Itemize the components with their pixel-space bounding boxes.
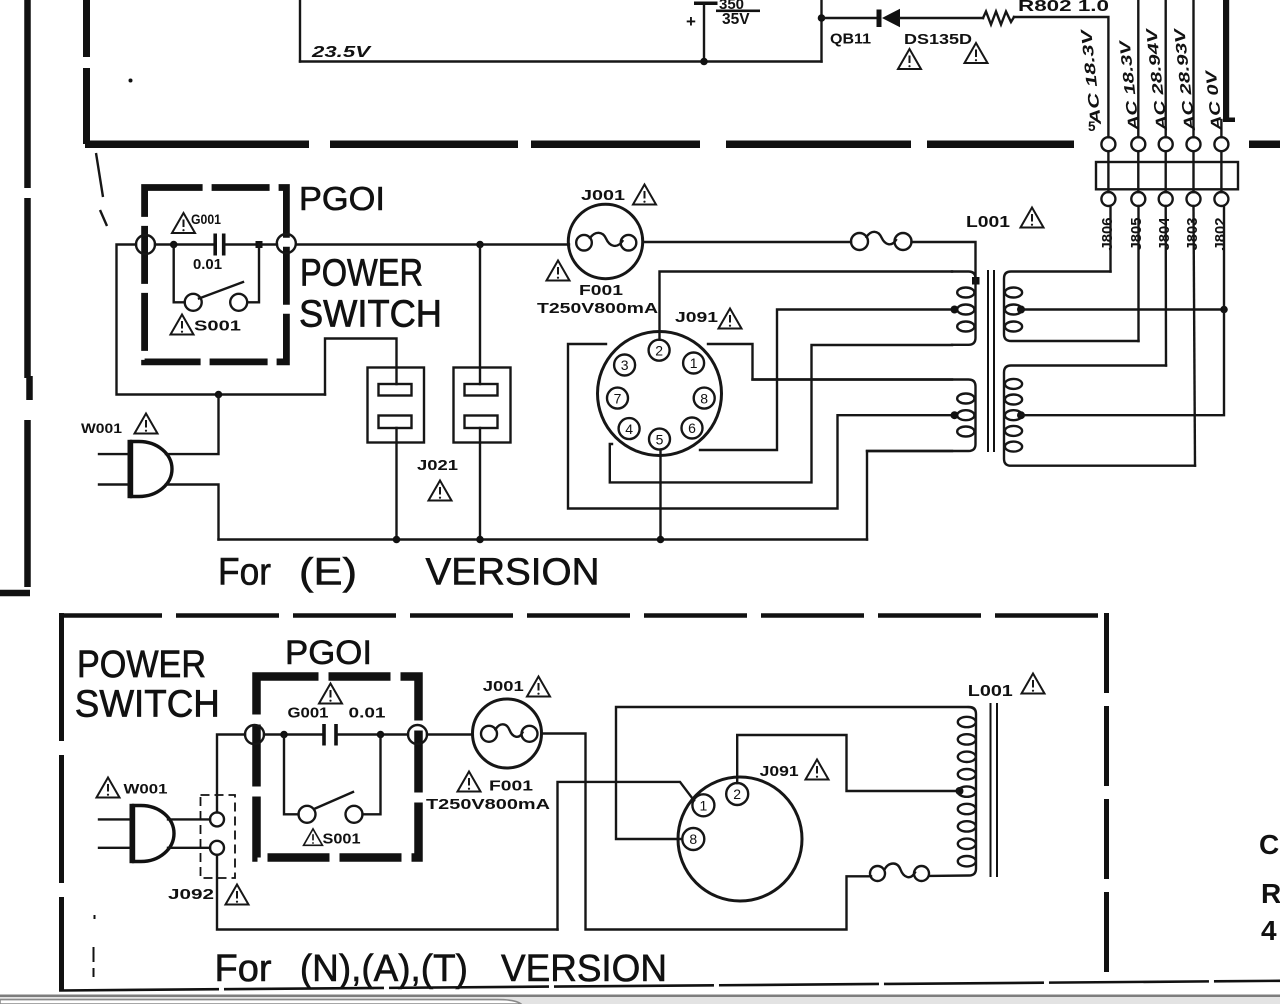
- wire J092 upper to main (NAT): [217, 735, 245, 813]
- warning triangle near QB11: [898, 49, 921, 69]
- svg-text:5: 5: [1088, 119, 1096, 134]
- wire AC line J802 upper: [1220, 120, 1222, 137]
- wire main line left of capacitor (E): [155, 243, 213, 245]
- svg-text:J021: J021: [417, 457, 458, 474]
- junction switch right (NAT): [377, 731, 385, 739]
- wire J091 upper-right edge to lower primary top (E): [708, 344, 952, 380]
- fuse F001 (E) right contact: [621, 235, 637, 251]
- svg-text:(N),(A),(T): (N),(A),(T): [300, 948, 468, 990]
- plug W001 (NAT): [134, 806, 175, 862]
- fuse holder J001 (NAT) big circle: [473, 699, 542, 768]
- svg-text:+: +: [686, 12, 696, 31]
- junction winding center tap (NAT): [956, 787, 964, 795]
- svg-text:DS135D: DS135D: [904, 32, 972, 48]
- warning triangle F001 (NAT): [458, 772, 481, 792]
- junction at J802 line (E): [1220, 306, 1228, 314]
- wire pin8 to winding top (NAT): [616, 707, 967, 839]
- pin 7 (E J091): [607, 388, 628, 409]
- svg-text:VERSION: VERSION: [426, 552, 600, 594]
- svg-text:F001: F001: [489, 779, 533, 795]
- connector top circle J804: [1159, 137, 1173, 151]
- svg-text:J091: J091: [675, 309, 718, 326]
- svg-text:SWITCH: SWITCH: [75, 684, 220, 726]
- line fuse F002 left contact (E): [851, 233, 868, 250]
- connector J091 (NAT) big circle: [678, 777, 802, 901]
- wire J091 lower-left edge to top primary bottom (E): [610, 345, 952, 482]
- jack J021 left bottom slot: [379, 416, 412, 429]
- warning triangle J001 (NAT): [527, 677, 550, 697]
- svg-text:W001: W001: [124, 781, 168, 797]
- fuse holder J001 (E) big circle: [568, 204, 642, 278]
- plug W001 prongs (NAT): [99, 819, 130, 847]
- pin 5 (E J091): [649, 429, 670, 450]
- svg-text:QB11: QB11: [830, 32, 871, 48]
- transformer L001 (NAT) core: [991, 703, 998, 877]
- svg-text:L001: L001: [966, 214, 1010, 231]
- svg-text:J092: J092: [168, 886, 214, 903]
- border chassis horizontal dashed line: [85, 140, 1280, 148]
- wire lower secondary top to J804 (E): [1164, 206, 1167, 366]
- junction right switch branch (E): [256, 241, 263, 248]
- svg-text:3: 3: [621, 357, 629, 373]
- warning triangle S001 (E): [171, 315, 194, 335]
- transformer secondary winding top (E): [1004, 272, 1139, 342]
- terminal circle right (NAT PG01): [408, 725, 427, 744]
- wire fuse right down to rail (NAT): [542, 734, 872, 930]
- warning triangle J021: [429, 481, 452, 501]
- svg-text:PGOI: PGOI: [285, 634, 372, 672]
- wire bottom rail (E): [219, 538, 868, 540]
- pin 1 (E J091): [683, 353, 704, 374]
- svg-text:W001: W001: [81, 420, 122, 436]
- warning triangle W001 (E): [135, 414, 158, 434]
- wire right jack bottom to rail (E): [479, 428, 481, 540]
- wire J091 lower-right edge to top primary center tap (E): [700, 310, 950, 451]
- wire capacitor to right terminal (E): [224, 243, 277, 245]
- svg-text:T250V800mA: T250V800mA: [537, 300, 658, 317]
- wire block bottom rail: [300, 60, 822, 62]
- fuse F001 (E) element: [590, 233, 623, 246]
- wire right jack drop (E): [479, 245, 481, 385]
- svg-text:2: 2: [655, 342, 663, 358]
- warning triangle W001 (NAT): [97, 778, 120, 798]
- svg-text:23.5V: 23.5V: [311, 44, 372, 61]
- wire secondary to J805 (E): [1137, 206, 1139, 341]
- svg-text:7: 7: [614, 390, 622, 406]
- wire diode to resistor: [900, 17, 983, 19]
- svg-text:F001: F001: [579, 283, 623, 299]
- switch S001 contact left (E): [185, 294, 202, 311]
- terminal circle left (E PG01): [136, 235, 155, 254]
- jack J021 right top slot: [465, 384, 498, 396]
- wire capacitor lead: [703, 4, 705, 62]
- warning triangle L001 (NAT): [1022, 674, 1045, 694]
- junction top primary center tap (E): [951, 306, 959, 314]
- svg-text:J804: J804: [1156, 217, 1173, 251]
- svg-text:1: 1: [690, 355, 698, 371]
- wire J091 upper-left edge to lower primary center tap (E): [568, 344, 950, 509]
- wire top secondary center tap to J802 (E): [1021, 308, 1224, 310]
- ui grey bar: [0, 997, 1280, 1004]
- wire switch right branch (NAT): [363, 735, 381, 815]
- fuse F001 (E) left contact: [576, 235, 592, 251]
- connector bottom circle J802: [1214, 192, 1228, 206]
- line fuse F002 element (E): [867, 232, 897, 245]
- svg-text:J001: J001: [483, 678, 524, 695]
- warning triangle near DS135D: [965, 43, 988, 63]
- fuse F001 (NAT) right contact: [522, 726, 538, 742]
- ui grey separator line: [0, 995, 1280, 998]
- svg-text:J806: J806: [1099, 218, 1116, 251]
- connector J092 dashed box: [201, 795, 236, 878]
- switch S001 lever (NAT): [314, 792, 353, 809]
- pin 4 (E J091): [619, 418, 640, 439]
- svg-text:2: 2: [733, 786, 741, 802]
- junction W001 top (E): [215, 391, 223, 399]
- capacitor G001 (NAT): [324, 724, 336, 746]
- transformer L001 (NAT) winding: [931, 707, 977, 876]
- border chassis left outer dashed vertical: [28, 0, 30, 577]
- connector bottom circle J803: [1187, 192, 1201, 206]
- connector J091 (E) big circle: [598, 332, 722, 456]
- connector bottom circle J805: [1131, 192, 1145, 206]
- warning triangle J092: [226, 885, 249, 905]
- jack J021 right body: [454, 368, 511, 443]
- svg-text:VERSION: VERSION: [501, 948, 667, 990]
- wire main line to right jack (E): [297, 243, 569, 245]
- svg-text:J001: J001: [581, 187, 625, 204]
- warning triangle J001 (E): [633, 185, 656, 205]
- fuse F001 (NAT) left contact: [481, 726, 497, 742]
- wire rail up to pin1 (NAT): [558, 782, 695, 930]
- fuse F001 (NAT) element: [496, 724, 523, 737]
- wire AC line J805 upper: [1137, 0, 1139, 137]
- transformer primary winding bottom (E): [753, 380, 976, 452]
- wire to diode: [822, 17, 878, 19]
- box PG01 dashed (NAT): [257, 677, 419, 858]
- warning triangle L001 (E): [1021, 208, 1044, 228]
- scratch artifact diagonal: [96, 153, 107, 226]
- switch S001 contact left (NAT): [299, 806, 316, 823]
- switch S001 contact right (E): [230, 294, 247, 311]
- wire plug bottom to rail (E): [166, 485, 219, 540]
- junction lower secondary center tap (E): [1017, 411, 1025, 419]
- wire rail to lower primary bottom (E): [867, 451, 952, 540]
- capacitor C811 plate: [694, 2, 718, 6]
- svg-text:SWITCH: SWITCH: [299, 294, 442, 336]
- wire plug bottom to J092 (NAT): [168, 847, 210, 849]
- svg-text:4: 4: [625, 421, 633, 437]
- connector top circle J806: [1101, 137, 1115, 151]
- svg-text:J802: J802: [1212, 218, 1229, 251]
- svg-text:J091: J091: [760, 763, 799, 780]
- border chassis inner vertical at x86: [83, 0, 90, 144]
- junction capacitor bottom: [700, 58, 708, 66]
- wire lower secondary center tap to J802 (E): [1021, 206, 1224, 415]
- svg-text:For: For: [218, 552, 271, 594]
- svg-text:G001: G001: [191, 211, 221, 227]
- connector J092 upper contact: [210, 812, 224, 826]
- svg-text:G001: G001: [288, 706, 329, 722]
- line fuse (NAT) element: [885, 864, 916, 878]
- junction left jack at rail: [393, 536, 401, 544]
- wire stubs circles to connector body: [1108, 151, 1221, 192]
- transformer secondary winding bottom (E): [1004, 366, 1195, 466]
- svg-text:0.01: 0.01: [193, 257, 222, 273]
- border NAT box top: [59, 613, 1108, 618]
- line fuse (NAT) right contact: [914, 866, 929, 881]
- border artifact small dashes: [94, 915, 95, 977]
- wire block right edge: [820, 0, 822, 62]
- wire lower secondary bottom to J803 (E): [1194, 206, 1196, 466]
- capacitor G001 (E): [215, 234, 224, 256]
- wire step up to left jack (E): [325, 339, 397, 395]
- wire main right segment (NAT): [337, 733, 408, 735]
- wire switch left branch (NAT): [284, 735, 299, 815]
- jack J021 left body: [368, 368, 425, 443]
- wire left jack bottom slot to rail: [395, 428, 397, 540]
- wire fuse to line fuse (E): [643, 241, 851, 243]
- connector body rectangle: [1096, 162, 1238, 189]
- wire left terminal to left rail (E): [117, 245, 326, 395]
- svg-text:T250V800mA: T250V800mA: [426, 796, 550, 813]
- svg-text:8: 8: [700, 390, 708, 406]
- svg-text:L001: L001: [968, 683, 1013, 700]
- border NAT box right: [1104, 613, 1109, 981]
- svg-text:PGOI: PGOI: [299, 180, 385, 217]
- border chassis E-box bottom-left corner: [0, 577, 30, 593]
- warning triangle J091 (NAT): [806, 760, 829, 780]
- warning triangle G001 (NAT): [319, 684, 342, 704]
- switch S001 contact right (NAT): [346, 806, 363, 823]
- border chassis right thick bar: [1223, 0, 1229, 122]
- wire pin2 to center tap (NAT): [737, 735, 957, 791]
- warning triangle F001 (E): [547, 261, 570, 281]
- svg-text:4: 4: [1261, 915, 1277, 946]
- svg-text:S001: S001: [194, 319, 241, 335]
- box PG01 dashed (E): [145, 188, 287, 362]
- svg-text:35V: 35V: [722, 11, 750, 28]
- pin 8 (NAT J091): [682, 828, 704, 850]
- svg-text:For: For: [215, 948, 272, 990]
- connector top circle J805: [1131, 137, 1145, 151]
- diode QB11 DS135D: [877, 10, 882, 28]
- svg-text:R802 1.0: R802 1.0: [1018, 0, 1109, 15]
- pin 2 (NAT J091): [726, 783, 748, 805]
- wire J092 lower to bottom rail (NAT): [217, 855, 558, 930]
- line fuse (NAT) left contact: [870, 866, 885, 881]
- wire main left segment (NAT): [264, 733, 322, 735]
- terminal circle left (NAT PG01): [245, 725, 264, 744]
- warning triangle S001 (NAT): [304, 829, 323, 845]
- jack J021 left top slot: [379, 384, 412, 396]
- svg-text:J805: J805: [1128, 218, 1145, 251]
- junction lower primary center tap (E): [951, 411, 959, 419]
- connector top circle J803: [1187, 137, 1201, 151]
- svg-text:POWER: POWER: [77, 644, 206, 686]
- plug W001 (E): [132, 442, 173, 497]
- junction transformer top (E): [972, 277, 980, 285]
- warning triangle G001 (E): [172, 213, 195, 233]
- jack J021 right bottom slot: [465, 416, 498, 429]
- switch S001 lever (E): [199, 282, 243, 299]
- pin 3 (E J091): [614, 355, 635, 376]
- plug W001 prongs (E): [99, 454, 128, 484]
- wire AC line J804 upper: [1164, 0, 1166, 137]
- warning triangle J091 (E): [719, 309, 742, 329]
- border NAT box bottom: [59, 981, 1280, 991]
- wire resistor to J806 line: [1014, 17, 1108, 137]
- terminal circle right (E PG01): [277, 234, 296, 253]
- wire secondary top to J806 (E): [1109, 206, 1111, 272]
- svg-text:(E): (E): [299, 552, 357, 594]
- block box left edge: [299, 0, 301, 62]
- svg-text:6: 6: [688, 420, 696, 436]
- pin 1 (NAT J091): [692, 794, 714, 816]
- junction right jack at rail (E): [476, 536, 484, 544]
- svg-text:0.01: 0.01: [349, 706, 386, 722]
- wire AC line J803 upper: [1192, 0, 1194, 137]
- svg-text:POWER: POWER: [300, 253, 423, 295]
- wire switch left branch (E): [174, 245, 185, 303]
- transformer primary winding top (E): [952, 272, 976, 345]
- transformer L001 (E) core: [988, 270, 994, 452]
- svg-text:8: 8: [689, 831, 697, 847]
- junction right jack at main (E): [476, 241, 484, 249]
- wire line fuse to transformer top (E): [912, 242, 976, 278]
- junction left switch branch (E): [170, 241, 178, 249]
- connector top circle J802: [1214, 137, 1228, 151]
- wire pin2 to transformer (E): [660, 272, 953, 340]
- junction top secondary center tap (E): [1017, 306, 1025, 314]
- border NAT box left: [59, 613, 64, 990]
- pin 2 (E J091): [649, 340, 670, 361]
- pin 6 (E J091): [682, 418, 703, 439]
- pin 8 (E J091): [694, 388, 715, 409]
- connector bottom circle J806: [1101, 192, 1115, 206]
- resistor R802: [983, 12, 1014, 25]
- ui white tab: [0, 1000, 521, 1004]
- svg-text:C(: C(: [1259, 829, 1280, 860]
- wire plug top to junction (E): [166, 395, 219, 455]
- line fuse F002 right contact (E): [895, 233, 912, 250]
- junction switch left (NAT): [280, 731, 288, 739]
- connector J092 lower contact: [210, 841, 224, 855]
- connector bottom circle J804: [1159, 192, 1173, 206]
- wire plug top to J092 (NAT): [168, 818, 210, 820]
- wire switch right branch (E): [247, 245, 259, 303]
- svg-text:1: 1: [700, 798, 708, 814]
- junction diode node: [818, 14, 826, 22]
- svg-text:S001: S001: [323, 832, 361, 848]
- svg-text:R: R: [1261, 878, 1280, 909]
- junction pin5 at rail (E): [657, 536, 665, 544]
- svg-text:5: 5: [656, 431, 664, 447]
- wire right terminal to fuse (NAT): [427, 733, 473, 735]
- wire pin5 to bottom rail (E): [659, 450, 661, 540]
